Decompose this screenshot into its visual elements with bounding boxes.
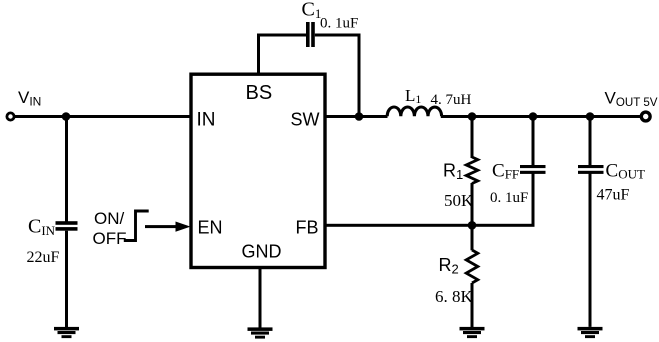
capacitor C1 (306, 22, 310, 47)
node R1 top junction (468, 112, 477, 121)
node input junction (62, 112, 71, 121)
wire L1 to VOUT terminal (441, 115, 642, 118)
svg-text:0. 1uF: 0. 1uF (320, 16, 358, 32)
ground CIN (54, 327, 79, 338)
svg-text:SW: SW (291, 109, 320, 129)
svg-text:EN: EN (198, 218, 223, 238)
wire CFF bottom lead (532, 174, 535, 226)
svg-text:ON/: ON/ (94, 209, 125, 228)
node FB junction (468, 221, 477, 230)
wire EN arrow shaft (145, 225, 176, 228)
wire SW pin to L1 (325, 115, 388, 118)
svg-text:OFF: OFF (93, 229, 127, 248)
svg-text:FB: FB (295, 218, 318, 238)
svg-text:22uF: 22uF (27, 249, 60, 266)
svg-text:0. 1uF: 0. 1uF (490, 190, 528, 206)
terminal VOUT (641, 112, 650, 121)
svg-text:4. 7uH: 4. 7uH (431, 92, 472, 108)
wire C1 down to SW node (358, 34, 361, 118)
wire BS stub up (257, 35, 260, 75)
capacitor CIN (56, 221, 78, 225)
wire COUT top lead (589, 116, 592, 166)
node COUT top junction (586, 112, 595, 121)
step waveform symbol (124, 211, 149, 241)
inductor L1 (387, 107, 441, 116)
wire R2 top lead (471, 225, 474, 250)
wire C1 left lead (257, 34, 306, 37)
resistor R1 (466, 157, 478, 184)
wire R2 bottom lead (471, 283, 474, 327)
node CFF top junction (529, 112, 538, 121)
wire VIN to IN pin (15, 115, 192, 118)
svg-text:GND: GND (242, 242, 282, 262)
ground COUT (578, 327, 603, 338)
wire CIN branch down (65, 116, 68, 222)
wire FB line (325, 224, 535, 227)
svg-text:BS: BS (246, 82, 273, 104)
ground IC GND (248, 327, 273, 338)
wire R1 top lead (471, 116, 474, 158)
op-amp U1 (regulator IC body) (191, 74, 325, 267)
resistor R2 (466, 250, 478, 283)
arrowhead into EN (176, 222, 191, 232)
svg-text:50K: 50K (444, 191, 474, 210)
capacitor COUT (578, 165, 604, 168)
svg-text:6. 8K: 6. 8K (435, 287, 474, 306)
node SW junction (355, 112, 364, 121)
wire CFF top lead (532, 116, 535, 166)
terminal VIN (7, 113, 14, 120)
wire CIN to ground (65, 231, 68, 328)
svg-text:47uF: 47uF (597, 187, 630, 204)
svg-text:IN: IN (197, 109, 216, 130)
capacitor CFF (520, 165, 546, 168)
wire R1 bottom lead (471, 183, 474, 227)
wire GND pin down (259, 268, 262, 328)
wire COUT bottom lead (589, 174, 592, 327)
wire C1 right lead (315, 34, 361, 37)
ground R2 (460, 327, 485, 338)
